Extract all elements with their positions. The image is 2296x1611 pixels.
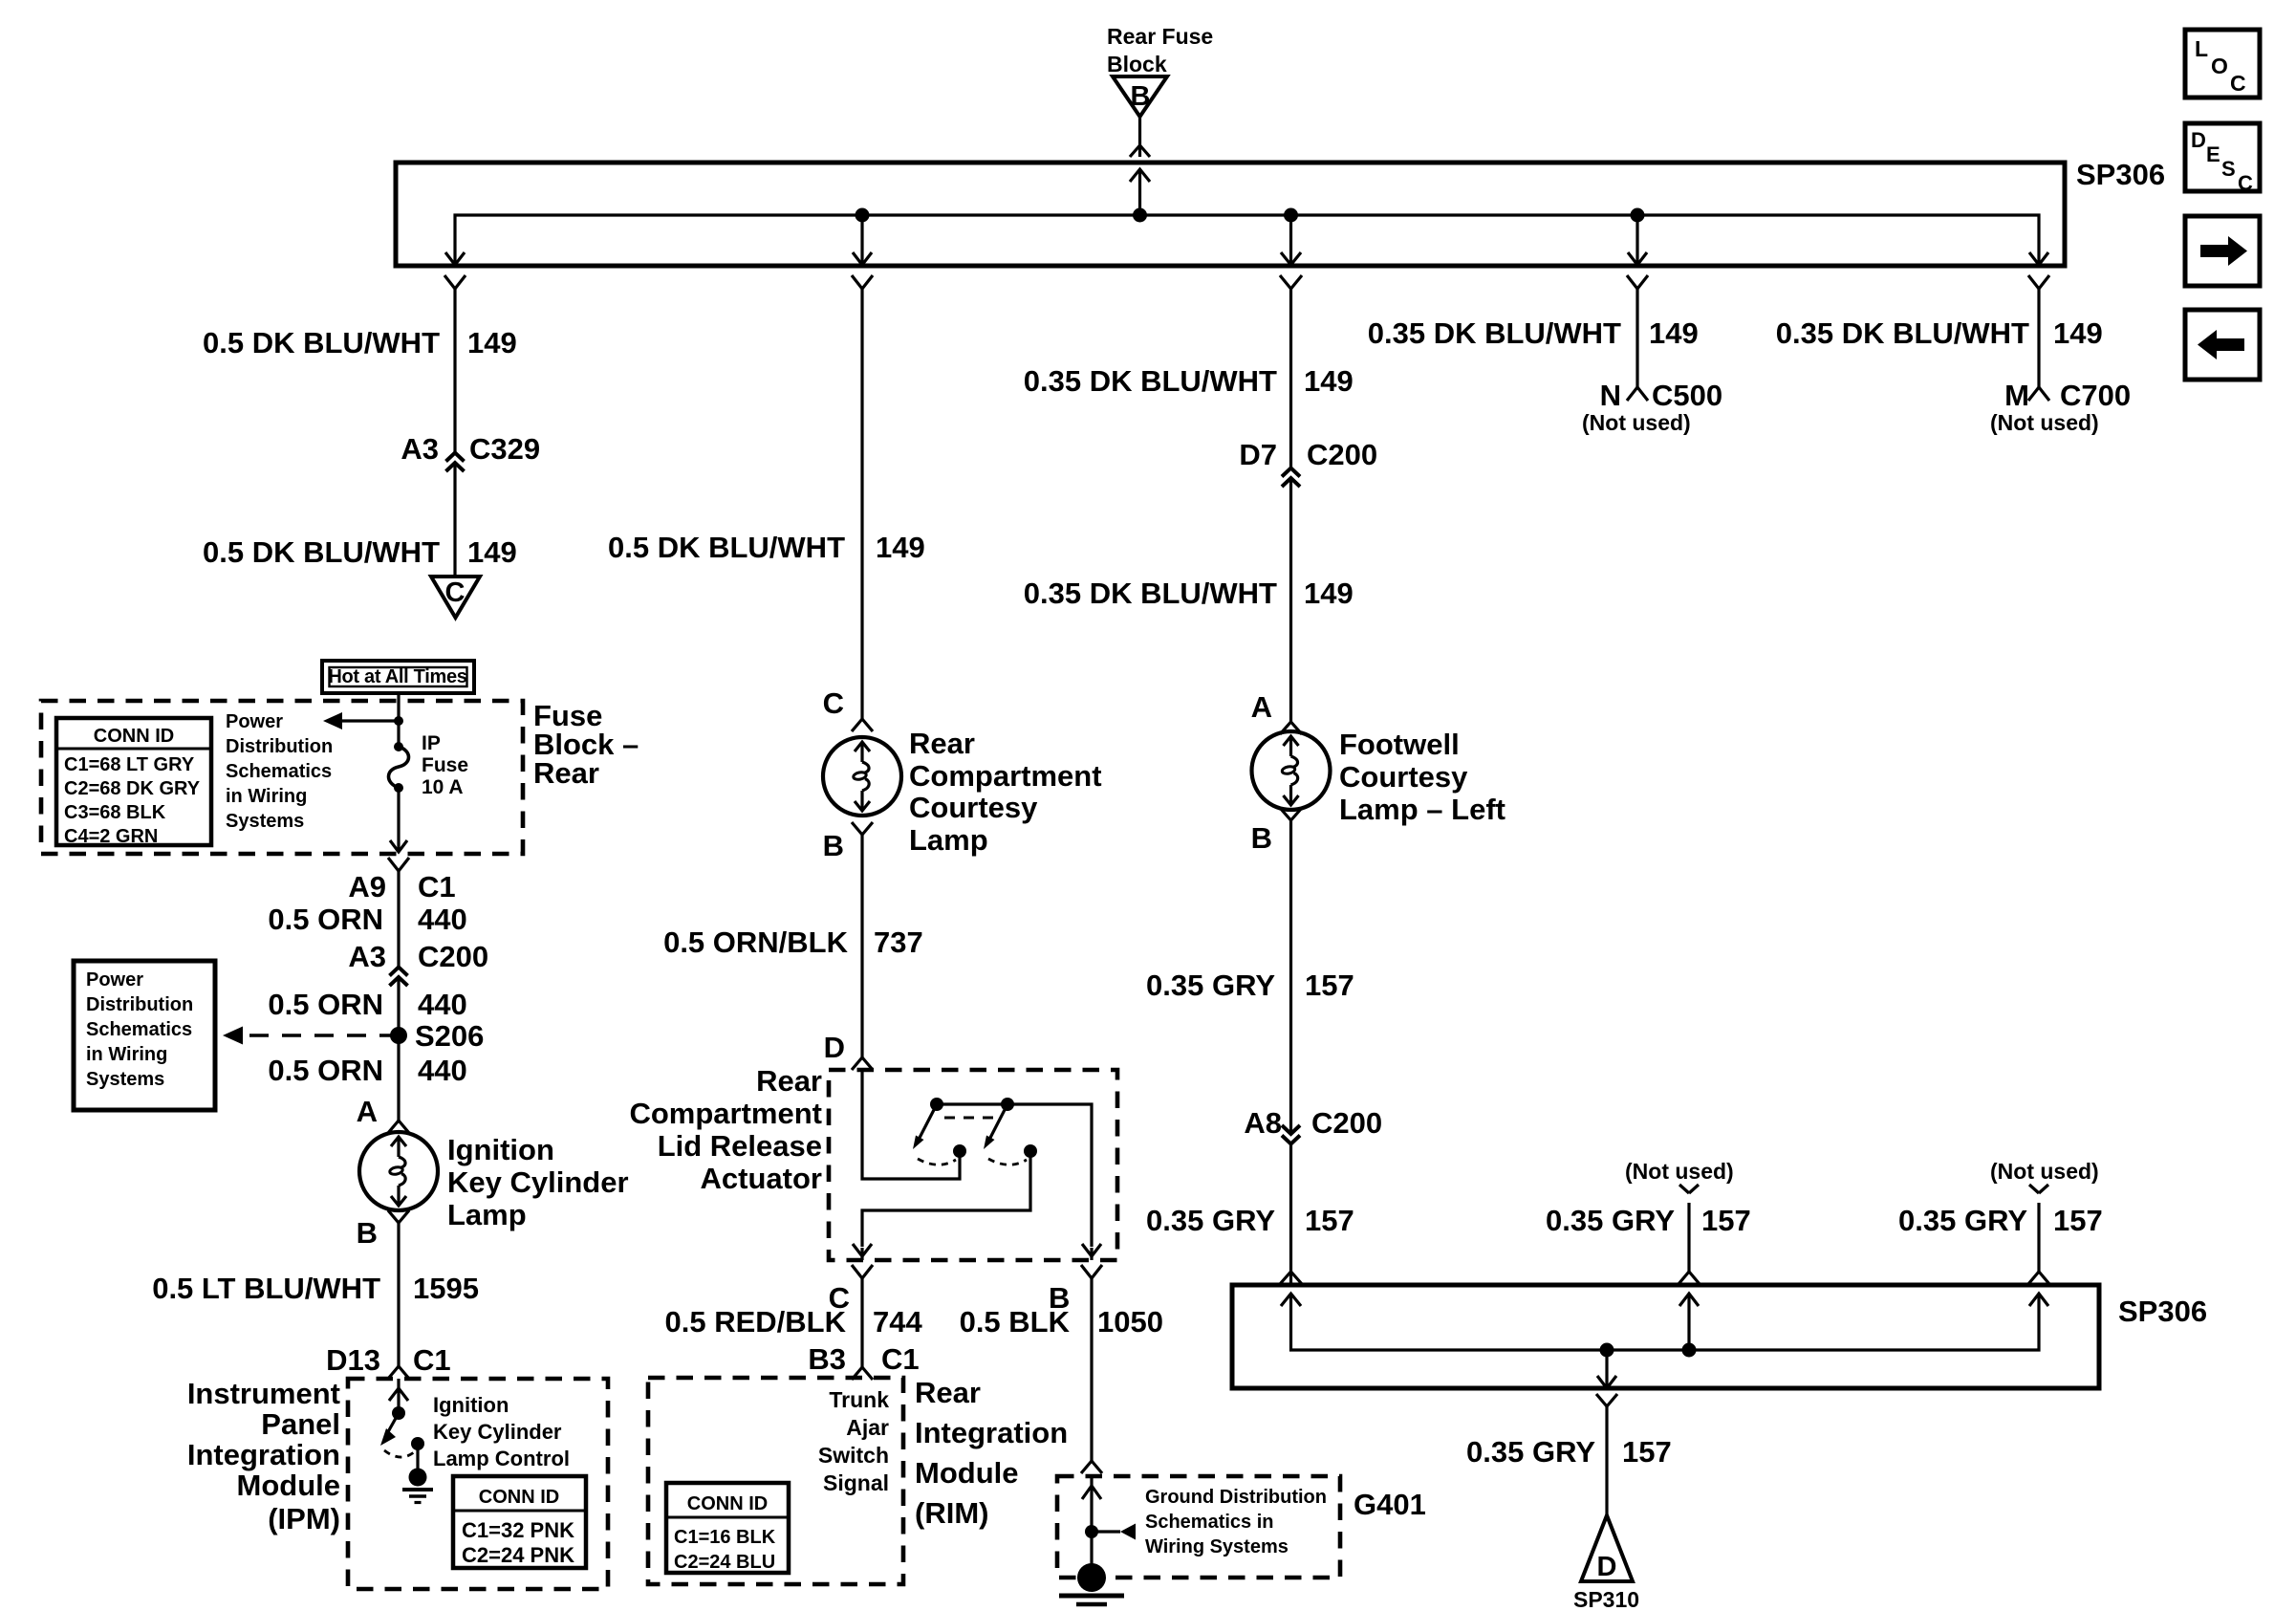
- svg-text:0.35 GRY: 0.35 GRY: [1546, 1204, 1675, 1237]
- label Fuse Block - Rear: [533, 699, 639, 790]
- svg-text:Hot at All Times: Hot at All Times: [328, 666, 466, 687]
- wire from contact to ground (IPM): [416, 1444, 419, 1469]
- connector C700 pin M label: [2004, 379, 2131, 412]
- terminal letter A (ignition key cylinder lamp): [357, 1095, 378, 1128]
- Hot at All Times box (double border): [322, 661, 474, 693]
- svg-text:Actuator: Actuator: [701, 1162, 822, 1195]
- switch contact dot (IPM): [411, 1437, 424, 1450]
- svg-text:Power: Power: [86, 969, 143, 991]
- arrowhead down at actuator right exit: [1082, 1244, 1101, 1260]
- svg-text:0.5 DK BLU/WHT: 0.5 DK BLU/WHT: [203, 326, 440, 359]
- svg-text:Trunk: Trunk: [829, 1387, 889, 1412]
- ground symbol G401: [1059, 1563, 1124, 1604]
- terminal letter A (footwell courtesy lamp): [1251, 690, 1272, 724]
- svg-text:B: B: [357, 1216, 378, 1250]
- svg-text:B: B: [823, 829, 844, 862]
- svg-text:Key Cylinder: Key Cylinder: [433, 1420, 562, 1444]
- svg-text:0.35 DK BLU/WHT: 0.35 DK BLU/WHT: [1776, 316, 2029, 350]
- connector C500 pin N label: [1600, 379, 1723, 412]
- in-line connector C200 pin D7 label: [1239, 438, 1377, 471]
- connector chevron below box at x=1713: [1627, 275, 1648, 289]
- wire 0.35 DK BLU/WHT 149 to C500 pin N (not used): [1635, 289, 1638, 387]
- wire into IPM with up arrowhead: [389, 1379, 408, 1413]
- junction dot on bottom bus at x=1767: [1682, 1343, 1697, 1358]
- svg-text:(IPM): (IPM): [268, 1502, 340, 1535]
- in-line connector C329 double chevron symbol: [446, 453, 465, 472]
- arrowhead down at left bus end x=476: [445, 252, 465, 265]
- connector C1 pin B3 label: [808, 1342, 919, 1376]
- wire stub up from bus to box top at x=1192 with up arrowhead: [1130, 169, 1150, 215]
- svg-text:Instrument: Instrument: [187, 1377, 340, 1410]
- wire stub down from bus at x=1713 with arrowhead: [1628, 215, 1647, 265]
- fuse IP Fuse 10 A symbol: [389, 742, 409, 793]
- wire label 0.35 DK BLU/WHT 149 (below C200, drop 3): [1024, 577, 1354, 610]
- connector chevron at lamp pin C: [852, 719, 873, 731]
- svg-text:B: B: [1131, 81, 1151, 112]
- wire label 0.5 DK BLU/WHT 149 (upper, drop 1): [203, 326, 517, 359]
- connector chevron below actuator at pin B: [1081, 1265, 1102, 1278]
- svg-text:0.5 ORN: 0.5 ORN: [268, 1054, 383, 1087]
- svg-text:157: 157: [1305, 1204, 1354, 1237]
- svg-text:D: D: [824, 1031, 845, 1064]
- svg-text:Footwell: Footwell: [1339, 728, 1460, 761]
- switch pivot dot (ignition key cylinder lamp control): [392, 1406, 405, 1420]
- wire 0.35 DK BLU/WHT 149 to C700 pin M (not used): [2037, 289, 2040, 387]
- svg-text:440: 440: [418, 988, 467, 1021]
- svg-text:Lamp – Left: Lamp – Left: [1339, 793, 1505, 826]
- wire label 0.5 BLK 1050: [960, 1305, 1163, 1339]
- in-line connector C200 double chevron symbol: [390, 968, 408, 987]
- wire 0.5 DK BLU/WHT 149 from SP306 to C329 (drop 1): [453, 289, 456, 577]
- svg-text:C: C: [823, 686, 844, 720]
- nav box forward arrow: [2185, 216, 2260, 286]
- splice box SP306 (bottom): [1232, 1285, 2099, 1388]
- wire from Hot at All Times into fuse: [397, 693, 400, 747]
- wire from pin D to switch 1 contact (actuator): [862, 1070, 960, 1179]
- wire label 0.5 ORN 440 (above S206): [268, 988, 466, 1021]
- wire 0.5 DK BLU/WHT 149 from SP306 to rear compartment courtesy lamp: [860, 289, 863, 719]
- wire label 0.35 DK BLU/WHT 149 (drop 4): [1368, 316, 1699, 350]
- junction dot on bus at x=1713: [1631, 208, 1645, 223]
- svg-text:B: B: [1251, 821, 1272, 855]
- svg-text:IP: IP: [422, 732, 441, 754]
- svg-text:Distribution: Distribution: [86, 994, 193, 1015]
- svg-text:CONN ID: CONN ID: [479, 1487, 559, 1508]
- component box: Rear Compartment Lid Release Actuator dashed: [829, 1070, 1117, 1260]
- in-line connector C200 pin A3 label: [348, 940, 488, 973]
- wire label 0.5 DK BLU/WHT 149 (drop 2): [608, 531, 925, 564]
- connector C1 pin D13 label: [326, 1343, 451, 1377]
- label G401: [1354, 1488, 1426, 1521]
- svg-text:C1: C1: [413, 1343, 451, 1377]
- connector chevron at IPM pin D13: [388, 1366, 409, 1379]
- arrowhead up at left bus end x=1350 (bottom box): [1281, 1294, 1301, 1306]
- svg-text:1595: 1595: [413, 1272, 479, 1305]
- switch 2 pivot dot (actuator): [1001, 1098, 1014, 1111]
- svg-text:G401: G401: [1354, 1488, 1426, 1521]
- arrowhead up at right bus end x=2133 (bottom box): [2029, 1294, 2048, 1306]
- CONN ID table (RIM): [666, 1483, 789, 1573]
- svg-text:N: N: [1600, 379, 1621, 412]
- junction dot on bus at x=1350: [1284, 208, 1298, 223]
- reference arrow to Power Distribution Schematics: [323, 712, 399, 729]
- svg-text:Rear: Rear: [909, 727, 975, 760]
- module box: Instrument Panel Integration Module (IPM) dashed: [348, 1379, 608, 1589]
- connector chevron at ground distribution entry: [1081, 1461, 1102, 1473]
- connector chevron below box at x=1350: [1280, 275, 1302, 289]
- svg-text:0.5 ORN/BLK: 0.5 ORN/BLK: [663, 925, 849, 959]
- svg-text:Lid Release: Lid Release: [658, 1129, 822, 1163]
- wire 0.5 ORN 440 from fuse block to lamp: [397, 871, 400, 1121]
- svg-text:Courtesy: Courtesy: [1339, 760, 1468, 794]
- junction dot on bottom bus at x=1681: [1600, 1343, 1614, 1358]
- wire across switch pivots to right leg (actuator): [937, 1104, 1092, 1247]
- svg-text:(Not used): (Not used): [1990, 1159, 2099, 1184]
- svg-text:A: A: [357, 1095, 378, 1128]
- svg-text:Compartment: Compartment: [629, 1097, 822, 1130]
- connector C1 pin A9 label: [348, 870, 455, 903]
- svg-text:C1=68 LT GRY: C1=68 LT GRY: [64, 754, 195, 775]
- svg-text:0.5 RED/BLK: 0.5 RED/BLK: [665, 1305, 847, 1339]
- wire from fuse to fuse block edge with arrowhead: [390, 788, 407, 852]
- bus wire inside SP306 top box: [455, 215, 2039, 264]
- svg-text:M: M: [2004, 379, 2029, 412]
- svg-text:(Not used): (Not used): [1990, 410, 2099, 435]
- lamp: Ignition Key Cylinder Lamp: [359, 1132, 438, 1210]
- wire stub down from bottom bus at x=1681 with arrowhead: [1597, 1350, 1616, 1388]
- svg-text:SP306: SP306: [2118, 1295, 2207, 1328]
- wire label 0.35 GRY 157 (right stub): [1898, 1204, 2103, 1237]
- wire end chevron at top of right stub: [2029, 1185, 2048, 1193]
- svg-text:C1=32 PNK: C1=32 PNK: [462, 1518, 574, 1542]
- wire end chevron at top of middle stub: [1679, 1185, 1699, 1193]
- label Trunk Ajar Switch Signal: [818, 1387, 889, 1495]
- wire 0.5 LT BLU/WHT 1595 from lamp to IPM: [397, 1223, 400, 1366]
- svg-text:D: D: [2191, 128, 2206, 152]
- junction dot on bus at x=902: [856, 208, 870, 223]
- svg-text:C200: C200: [418, 940, 488, 973]
- label SP306 (bottom box): [2118, 1295, 2207, 1328]
- connector chevron below box at x=902: [852, 275, 873, 289]
- lamp: Rear Compartment Courtesy Lamp: [823, 737, 901, 816]
- connector chevron at B wire end: [1130, 145, 1150, 157]
- terminal letter C (rear compartment courtesy lamp): [823, 686, 844, 720]
- label Rear Compartment Lid Release Actuator: [629, 1064, 822, 1195]
- svg-text:A8: A8: [1244, 1106, 1282, 1140]
- svg-text:744: 744: [873, 1305, 922, 1339]
- note Ground Distribution Schematics in Wiring Systems: [1145, 1487, 1327, 1557]
- svg-text:Integration: Integration: [915, 1416, 1068, 1449]
- svg-text:Integration: Integration: [187, 1438, 340, 1471]
- svg-text:A9: A9: [348, 870, 386, 903]
- svg-text:149: 149: [876, 531, 925, 564]
- svg-text:Schematics in: Schematics in: [1145, 1512, 1274, 1533]
- svg-text:0.5 LT BLU/WHT: 0.5 LT BLU/WHT: [152, 1272, 380, 1305]
- svg-text:0.5 ORN: 0.5 ORN: [268, 903, 383, 936]
- svg-text:Module: Module: [237, 1469, 341, 1502]
- svg-text:Fuse: Fuse: [422, 754, 468, 776]
- svg-text:in Wiring: in Wiring: [86, 1044, 167, 1065]
- svg-text:C1: C1: [881, 1342, 920, 1376]
- ground distribution dashed box G401: [1057, 1476, 1340, 1578]
- svg-text:0.5 BLK: 0.5 BLK: [960, 1305, 1071, 1339]
- connector chevron above bottom box at x=2133: [2028, 1272, 2049, 1284]
- svg-text:S206: S206: [415, 1019, 484, 1053]
- arrowhead down at actuator left exit: [853, 1244, 872, 1260]
- svg-text:C2=68 DK GRY: C2=68 DK GRY: [64, 778, 201, 799]
- svg-text:Power: Power: [226, 711, 283, 732]
- wire label 0.5 ORN 440 (below S206): [268, 1054, 466, 1087]
- svg-text:D13: D13: [326, 1343, 380, 1377]
- svg-text:C200: C200: [1311, 1106, 1382, 1140]
- svg-text:Panel: Panel: [261, 1407, 340, 1441]
- nav box DESC: [2185, 123, 2260, 195]
- wire label 0.35 DK BLU/WHT 149 (drop 5): [1776, 316, 2103, 350]
- off-page reference label: Rear Fuse Block: [1107, 24, 1213, 76]
- svg-text:C: C: [445, 577, 466, 608]
- svg-text:C500: C500: [1652, 379, 1722, 412]
- svg-text:0.35 GRY: 0.35 GRY: [1466, 1435, 1595, 1469]
- note (Not used) at C700: [1990, 410, 2099, 435]
- svg-text:C200: C200: [1307, 438, 1377, 471]
- wire label 0.5 ORN 440 (above C200): [268, 903, 466, 936]
- dashed reference arrow from S206 to Power Distribution box: [223, 1027, 399, 1045]
- splice S206 junction dot: [390, 1027, 407, 1044]
- ground symbol inside IPM: [402, 1469, 433, 1503]
- wire end chevron at C500: [1627, 387, 1648, 401]
- terminal letter B (ignition key cylinder lamp): [357, 1216, 378, 1250]
- connector chevron at actuator pin D: [852, 1057, 873, 1070]
- connector chevron above bottom box at x=1767: [1679, 1272, 1700, 1284]
- wire label 0.35 GRY 157 (above C200 A8): [1146, 969, 1354, 1002]
- svg-text:SP306: SP306: [2076, 158, 2165, 191]
- svg-text:737: 737: [874, 925, 923, 959]
- wire label 0.35 DK BLU/WHT 149 (above C200, drop 3): [1024, 364, 1354, 398]
- svg-text:(Not used): (Not used): [1582, 410, 1691, 435]
- svg-text:440: 440: [418, 1054, 467, 1087]
- nav box LOC: [2185, 30, 2260, 98]
- svg-text:C3=68 BLK: C3=68 BLK: [64, 802, 166, 823]
- svg-text:Signal: Signal: [823, 1470, 889, 1495]
- connector chevron at footwell lamp pin B: [1280, 808, 1302, 820]
- svg-text:Rear: Rear: [756, 1064, 822, 1098]
- svg-text:Rear: Rear: [533, 756, 599, 790]
- off-page connector triangle B (Rear Fuse Block): [1113, 76, 1167, 117]
- svg-text:149: 149: [467, 535, 517, 569]
- svg-text:157: 157: [2053, 1204, 2103, 1237]
- svg-text:D7: D7: [1239, 438, 1277, 471]
- svg-text:Lamp: Lamp: [909, 823, 988, 857]
- note (Not used) middle stub: [1625, 1159, 1734, 1184]
- connector chevron at RIM pin B3: [852, 1367, 873, 1380]
- svg-text:0.35 DK BLU/WHT: 0.35 DK BLU/WHT: [1368, 316, 1621, 350]
- note Power Distribution Schematics in Wiring Systems (fuse block): [226, 711, 333, 832]
- svg-text:149: 149: [467, 326, 517, 359]
- svg-text:10 A: 10 A: [422, 776, 464, 798]
- switch 1 arm with arrowhead (actuator): [913, 1104, 937, 1149]
- junction dot in ground box: [1085, 1525, 1098, 1538]
- wire label 0.5 ORN/BLK 737: [663, 925, 923, 959]
- note (Not used) right stub: [1990, 1159, 2099, 1184]
- svg-text:D: D: [1597, 1552, 1617, 1582]
- svg-text:SP310: SP310: [1573, 1587, 1639, 1611]
- connector chevron above SP306 bottom box at x=1350: [1280, 1272, 1302, 1284]
- svg-text:Module: Module: [915, 1456, 1019, 1490]
- svg-text:Ground Distribution: Ground Distribution: [1145, 1487, 1327, 1508]
- wire into ground box with up arrowhead: [1082, 1476, 1101, 1564]
- in-line connector C329 pin A3 label: [401, 432, 540, 466]
- svg-text:C: C: [2238, 171, 2253, 195]
- svg-text:157: 157: [1305, 969, 1354, 1002]
- junction dot above fuse: [394, 716, 403, 726]
- wire from switch 2 contact to left exit (actuator): [862, 1151, 1030, 1247]
- switch 2 contact dot (actuator): [1024, 1144, 1037, 1158]
- svg-text:149: 149: [1649, 316, 1699, 350]
- reference arrow to Ground Distribution Schematics: [1092, 1524, 1136, 1540]
- CONN ID table (IPM): [453, 1476, 586, 1568]
- svg-text:0.35 GRY: 0.35 GRY: [1146, 969, 1275, 1002]
- connector chevron below box at x=476: [444, 275, 466, 289]
- off-page connector triangle C: [431, 577, 480, 618]
- wire 0.5 BLK 1050 from actuator to ground G401: [1090, 1278, 1093, 1461]
- svg-text:Lamp: Lamp: [447, 1198, 527, 1231]
- switch 1 pivot dot (actuator): [930, 1098, 943, 1111]
- svg-text:Systems: Systems: [86, 1069, 164, 1090]
- svg-text:C329: C329: [469, 432, 540, 466]
- junction dot on bus at x=1192 (feed from Rear Fuse Block): [1133, 208, 1147, 223]
- Power Distribution Schematics solid box: [74, 961, 215, 1110]
- note (Not used) at C500: [1582, 410, 1691, 435]
- label Instrument Panel Integration Module (IPM): [187, 1377, 340, 1535]
- connector chevron at lamp pin A: [388, 1121, 409, 1133]
- wire end chevron at C700: [2028, 387, 2049, 401]
- svg-text:Courtesy: Courtesy: [909, 791, 1038, 824]
- wire stub up from bottom bus at x=1767 with arrowhead: [1679, 1294, 1699, 1350]
- svg-text:Rear Fuse: Rear Fuse: [1107, 24, 1213, 49]
- wire label 0.5 DK BLU/WHT 149 (lower, drop 1): [203, 535, 517, 569]
- terminal letter B (actuator ground side): [1049, 1281, 1070, 1315]
- svg-text:149: 149: [2053, 316, 2103, 350]
- svg-text:(RIM): (RIM): [915, 1496, 988, 1530]
- svg-text:C1: C1: [418, 870, 456, 903]
- svg-text:0.5 DK BLU/WHT: 0.5 DK BLU/WHT: [608, 531, 845, 564]
- mechanical link dashed line between switch arms (actuator): [944, 1117, 1002, 1120]
- svg-text:0.5 ORN: 0.5 ORN: [268, 988, 383, 1021]
- in-line connector C200 pin A8 label: [1244, 1106, 1382, 1140]
- svg-text:A: A: [1251, 690, 1272, 724]
- terminal letter D (actuator): [824, 1031, 845, 1064]
- svg-text:A3: A3: [401, 432, 439, 466]
- svg-text:C2=24 PNK: C2=24 PNK: [462, 1543, 574, 1567]
- svg-text:S: S: [2221, 157, 2236, 181]
- off-page connector triangle D (SP310): [1581, 1515, 1633, 1582]
- svg-text:Ignition: Ignition: [433, 1393, 509, 1417]
- svg-text:Switch: Switch: [818, 1443, 889, 1468]
- wire label 0.5 RED/BLK 744: [665, 1305, 923, 1339]
- wire label 0.35 GRY 157 (below C200 A8): [1146, 1204, 1354, 1237]
- switch 2 travel dashed arc (actuator): [988, 1159, 1027, 1165]
- label S206: [415, 1019, 484, 1053]
- arrowhead down at right bus end x=2133: [2029, 252, 2048, 265]
- svg-text:Wiring Systems: Wiring Systems: [1145, 1536, 1289, 1557]
- svg-text:C4=2 GRN: C4=2 GRN: [64, 826, 158, 847]
- in-line connector C200 chevron symbol (A8, downward): [1282, 1125, 1300, 1144]
- switch 2 arm with arrowhead (actuator): [984, 1104, 1007, 1149]
- label Rear Compartment Courtesy Lamp: [909, 727, 1102, 857]
- bus wire inside SP306 bottom box: [1291, 1294, 2040, 1350]
- svg-text:Systems: Systems: [226, 811, 304, 832]
- terminal letter B (rear compartment courtesy lamp): [823, 829, 844, 862]
- label IP Fuse 10 A: [422, 732, 468, 798]
- svg-text:0.35 GRY: 0.35 GRY: [1898, 1204, 2027, 1237]
- wire stub down from bus at x=902 with arrowhead: [853, 215, 872, 265]
- switch 1 travel dashed arc (actuator): [918, 1159, 956, 1165]
- svg-text:(Not used): (Not used): [1625, 1159, 1734, 1184]
- switch travel dashed arc (IPM): [384, 1450, 414, 1457]
- splice box SP306 (top): [396, 163, 2065, 266]
- label Rear Integration Module (RIM): [915, 1376, 1068, 1530]
- wire 0.35 GRY 157 from footwell lamp to SP306 bottom: [1289, 820, 1292, 1285]
- wire 0.5 RED/BLK 744 from actuator to RIM: [860, 1278, 863, 1367]
- svg-text:Lamp Control: Lamp Control: [433, 1447, 570, 1470]
- svg-text:0.35 DK BLU/WHT: 0.35 DK BLU/WHT: [1024, 364, 1277, 398]
- wire from triangle B down to SP306 splice box: [1138, 117, 1141, 157]
- terminal letter C (trunk ajar switch): [829, 1281, 850, 1315]
- svg-text:CONN ID: CONN ID: [94, 726, 174, 747]
- wire 0.35 GRY 157 stub (not used, middle): [1687, 1203, 1690, 1272]
- CONN ID table (fuse block): [56, 718, 211, 847]
- svg-text:Compartment: Compartment: [909, 759, 1102, 793]
- lamp: Footwell Courtesy Lamp - Left: [1252, 731, 1331, 810]
- svg-text:157: 157: [1622, 1435, 1672, 1469]
- svg-text:0.35 GRY: 0.35 GRY: [1146, 1204, 1275, 1237]
- svg-text:440: 440: [418, 903, 467, 936]
- svg-text:C2=24 BLU: C2=24 BLU: [674, 1552, 775, 1573]
- wire label 0.35 GRY 157 (to SP310): [1466, 1435, 1672, 1469]
- svg-text:Rear: Rear: [915, 1376, 981, 1409]
- wire stub down from bus at x=1350 with arrowhead: [1281, 215, 1301, 265]
- connector chevron at lamp pin B: [388, 1210, 409, 1223]
- wire 0.35 DK BLU/WHT 149 from SP306 to footwell lamp (drop 3): [1289, 289, 1292, 722]
- wire label 0.5 LT BLU/WHT 1595: [152, 1272, 479, 1305]
- wire 0.5 ORN/BLK 737 from lamp to actuator: [860, 835, 863, 1057]
- label Ignition Key Cylinder Lamp Control: [433, 1393, 570, 1470]
- svg-text:0.35 DK BLU/WHT: 0.35 DK BLU/WHT: [1024, 577, 1277, 610]
- wire 0.35 GRY 157 from SP306 to SP310: [1605, 1406, 1608, 1516]
- connector chevron below fuse block at pin A9: [388, 858, 409, 871]
- label Footwell Courtesy Lamp - Left: [1339, 728, 1505, 826]
- wire label 0.35 GRY 157 (middle stub): [1546, 1204, 1751, 1237]
- svg-text:Ignition: Ignition: [447, 1133, 554, 1166]
- svg-text:Block: Block: [1107, 52, 1167, 76]
- svg-text:C: C: [2230, 71, 2246, 96]
- svg-text:157: 157: [1701, 1204, 1751, 1237]
- Fuse Block - Rear dashed outline: [41, 701, 523, 854]
- svg-text:C1=16 BLK: C1=16 BLK: [674, 1527, 776, 1548]
- switch 1 contact dot (actuator): [953, 1144, 966, 1158]
- svg-text:0.5 DK BLU/WHT: 0.5 DK BLU/WHT: [203, 535, 440, 569]
- svg-text:B3: B3: [808, 1342, 846, 1376]
- nav box back arrow: [2185, 310, 2260, 380]
- connector chevron at lamp pin B (rear compartment lamp): [852, 822, 873, 835]
- connector chevron below actuator at pin C: [852, 1265, 873, 1278]
- svg-text:A3: A3: [348, 940, 386, 973]
- connector chevron below box at x=2133: [2028, 275, 2049, 289]
- svg-text:1050: 1050: [1097, 1305, 1163, 1339]
- svg-text:149: 149: [1304, 364, 1354, 398]
- switch arm with arrowhead (IPM): [380, 1413, 399, 1446]
- svg-text:Schematics: Schematics: [226, 761, 332, 782]
